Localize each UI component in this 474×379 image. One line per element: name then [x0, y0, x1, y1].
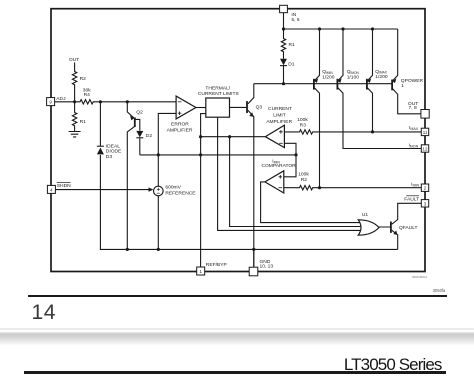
svg-text:LIMIT: LIMIT	[273, 112, 286, 118]
svg-text:100k: 100k	[297, 117, 308, 123]
svg-text:IMON: IMON	[408, 142, 418, 148]
svg-text:CURRENT LIMITS: CURRENT LIMITS	[198, 91, 240, 97]
svg-text:10, 13: 10, 13	[260, 264, 274, 270]
svg-text:IMAX: IMAX	[409, 125, 419, 131]
svg-text:QIMON: QIMON	[347, 69, 360, 75]
svg-text:DIODE: DIODE	[106, 149, 122, 155]
svg-text:1: 1	[401, 83, 404, 89]
svg-text:D2: D2	[146, 133, 153, 139]
svg-text:ADJ: ADJ	[56, 96, 66, 102]
svg-text:AMPLIFIER: AMPLIFIER	[167, 128, 193, 134]
svg-text:7, 8: 7, 8	[409, 105, 417, 111]
svg-text:COMPARATOR: COMPARATOR	[261, 163, 296, 169]
svg-text:3050 BD01: 3050 BD01	[412, 275, 427, 279]
svg-text:QIMAX: QIMAX	[375, 69, 387, 75]
svg-text:D3: D3	[106, 154, 113, 160]
svg-text:1/200: 1/200	[375, 74, 388, 80]
svg-text:R2: R2	[301, 177, 308, 183]
svg-text:THERMAL/: THERMAL/	[205, 85, 230, 91]
svg-text:5, 6: 5, 6	[291, 17, 299, 23]
svg-text:11: 11	[423, 130, 428, 135]
svg-text:IMIN: IMIN	[411, 181, 419, 187]
svg-text:R3: R3	[300, 122, 307, 128]
svg-text:R1: R1	[289, 42, 296, 48]
svg-text:REF/BYP: REF/BYP	[206, 262, 227, 268]
svg-text:1/200: 1/200	[322, 74, 335, 80]
svg-text:QPOWER: QPOWER	[401, 78, 424, 84]
svg-text:Q2: Q2	[136, 109, 143, 115]
svg-text:100k: 100k	[298, 172, 309, 178]
svg-text:12: 12	[423, 147, 428, 152]
svg-text:R4: R4	[84, 92, 91, 98]
svg-text:IDEAL: IDEAL	[106, 143, 120, 149]
svg-text:D1: D1	[288, 61, 295, 67]
svg-text:600mV: 600mV	[165, 184, 181, 190]
svg-text:AMPLIFIER: AMPLIFIER	[266, 119, 292, 125]
svg-text:U1: U1	[362, 212, 369, 218]
svg-text:SHDN: SHDN	[57, 183, 71, 189]
svg-text:ERROR: ERROR	[171, 122, 189, 128]
svg-text:REFERENCE: REFERENCE	[165, 190, 196, 196]
svg-text:3050fa: 3050fa	[433, 288, 446, 293]
svg-text:FAULT: FAULT	[404, 196, 419, 202]
svg-text:Q3: Q3	[256, 104, 263, 110]
svg-text:CURRENT: CURRENT	[268, 106, 292, 112]
svg-text:R1: R1	[80, 119, 87, 125]
svg-text:QFAULT: QFAULT	[399, 225, 418, 231]
svg-text:OUT: OUT	[69, 57, 79, 63]
svg-text:1/100: 1/100	[347, 74, 360, 80]
svg-text:R2: R2	[80, 76, 87, 82]
svg-text:QIMIN: QIMIN	[322, 69, 333, 75]
